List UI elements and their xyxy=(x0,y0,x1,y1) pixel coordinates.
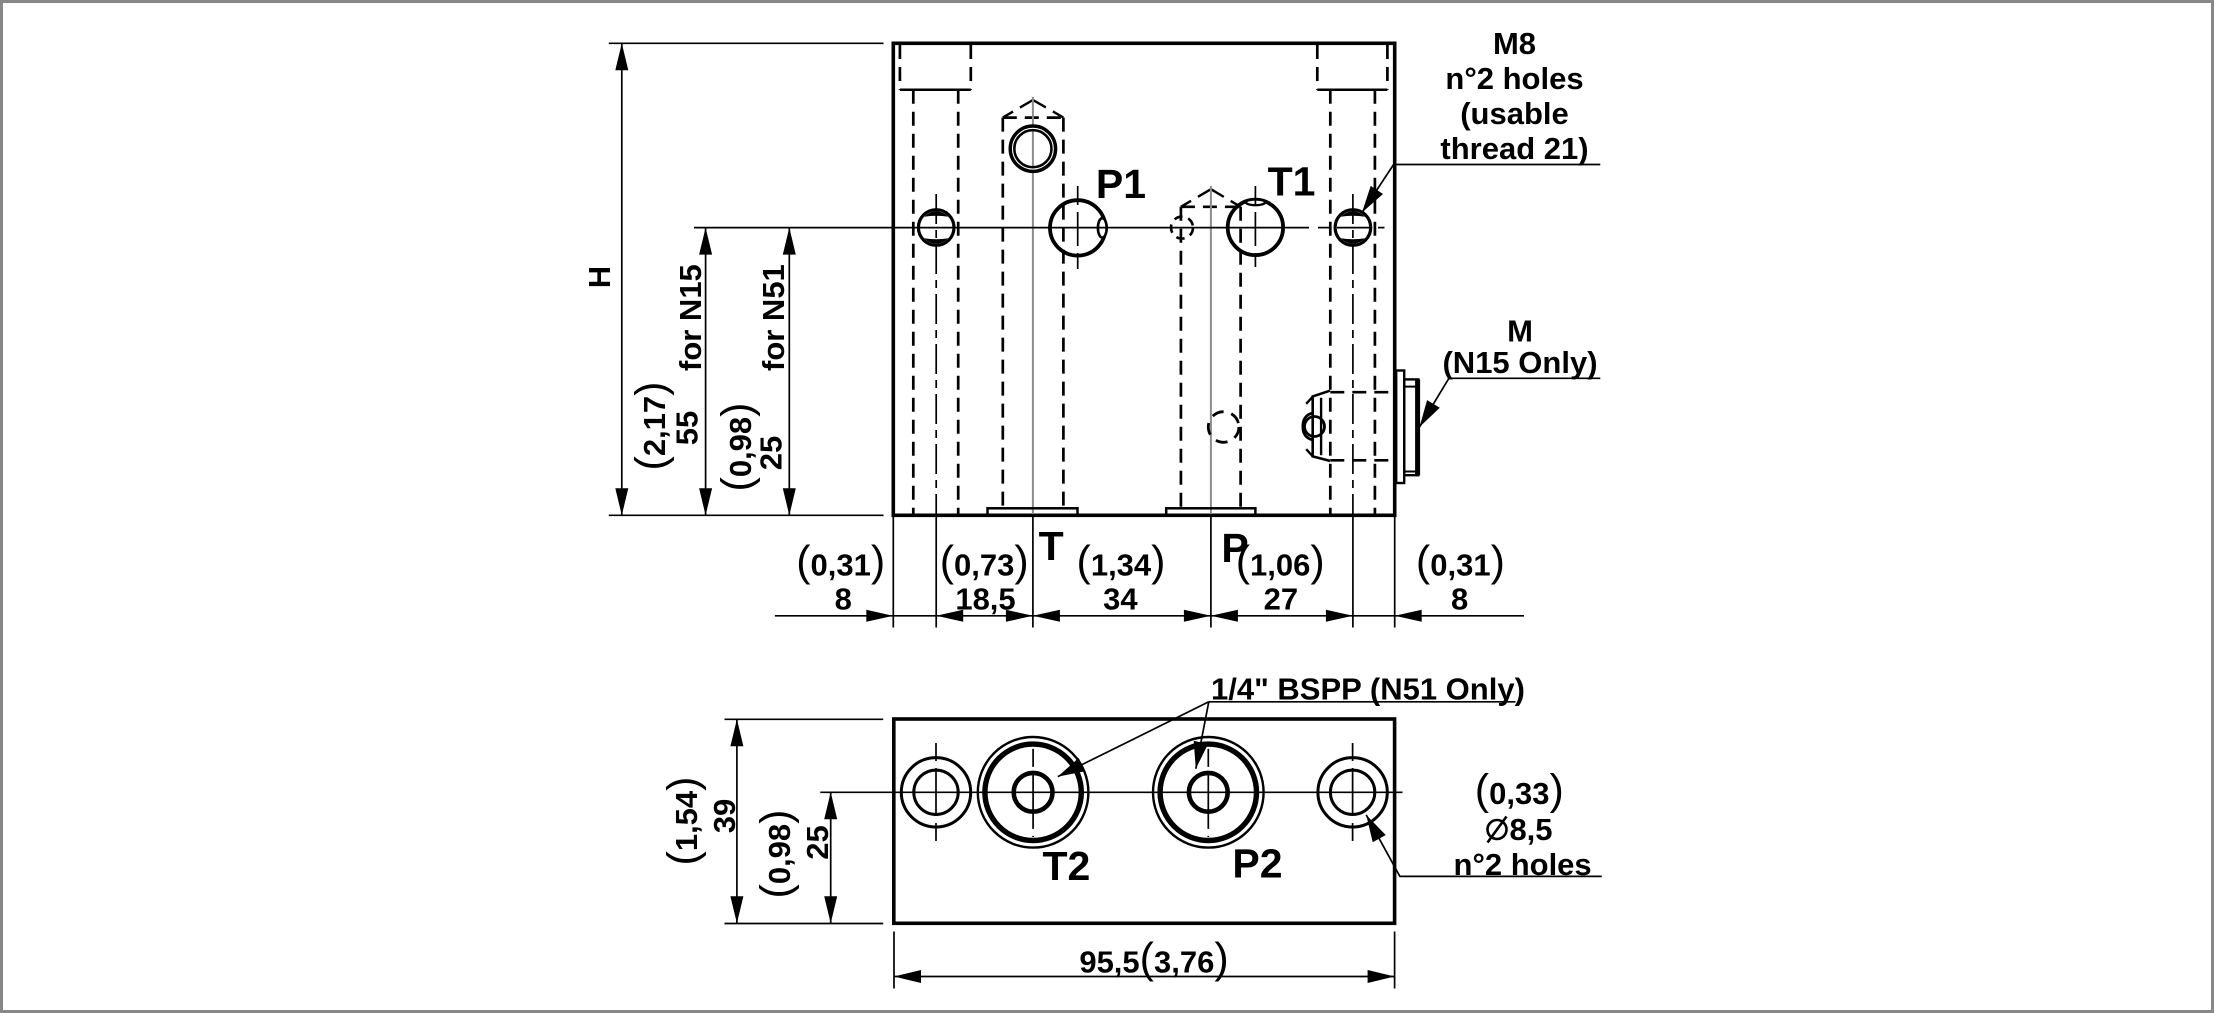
25 bottom dimension label xyxy=(752,810,835,899)
dim 27 label xyxy=(1236,538,1325,617)
front view: block body outline xyxy=(893,43,1394,515)
svg-text:M: M xyxy=(1507,314,1533,349)
right M8 front hole xyxy=(1335,210,1371,246)
P port centerline xyxy=(1210,186,1212,515)
svg-text:M8: M8 xyxy=(1493,26,1536,61)
right counterbore (hidden) xyxy=(1317,45,1387,90)
T port seat foot xyxy=(988,508,1078,515)
left counterbore (hidden) xyxy=(900,45,971,90)
dia 8,5 note text xyxy=(1454,766,1592,882)
T1 vertical centerline xyxy=(1254,186,1256,267)
svg-text:8,5: 8,5 xyxy=(1509,812,1552,847)
svg-text:(2,17): (2,17) xyxy=(627,382,675,471)
55 for N15 dimension xyxy=(699,228,712,516)
svg-text:T: T xyxy=(1039,523,1064,569)
svg-text:(N15 Only): (N15 Only) xyxy=(1442,345,1597,380)
svg-text:27: 27 xyxy=(1264,582,1298,617)
P gallery intersection (hidden blob) xyxy=(1208,412,1239,443)
T port centerline xyxy=(1032,97,1034,515)
chain dimension line xyxy=(775,615,1524,617)
T1 port circle xyxy=(1228,200,1283,255)
dim 8 right label xyxy=(1416,538,1505,617)
M plug cone tip detail xyxy=(1303,391,1330,461)
M plug flange xyxy=(1396,371,1404,484)
svg-text:55: 55 xyxy=(670,411,705,445)
svg-text:(1,54): (1,54) xyxy=(659,777,707,866)
bottom left mounting hole xyxy=(901,743,970,841)
svg-text:18,5: 18,5 xyxy=(955,582,1015,617)
25 for N51 dimension xyxy=(783,228,796,516)
svg-text:(1,34): (1,34) xyxy=(1077,538,1166,586)
svg-text:P2: P2 xyxy=(1232,841,1282,887)
dim 8 left label xyxy=(796,538,885,617)
svg-text:(0,33): (0,33) xyxy=(1475,766,1564,814)
95,5 dimension xyxy=(894,932,1395,989)
svg-text:(0,98): (0,98) xyxy=(752,810,800,899)
svg-text:(0,73): (0,73) xyxy=(940,538,1029,586)
right mounting drill hole (hidden) xyxy=(1330,90,1375,514)
right hole centerline xyxy=(1352,194,1354,515)
BSPP note leader xyxy=(1058,702,1516,777)
svg-text:(usable: (usable xyxy=(1460,96,1569,131)
P1 port circle xyxy=(1050,200,1105,255)
T port drill tower (hidden) xyxy=(1003,100,1064,509)
M8 note leader xyxy=(1362,165,1600,213)
svg-text:8: 8 xyxy=(1451,582,1468,617)
svg-text:39: 39 xyxy=(707,799,742,833)
P1 bore intersection lens xyxy=(1098,218,1107,237)
svg-text:H: H xyxy=(582,266,617,288)
chain arrowheads xyxy=(866,610,1421,622)
M plug note leader xyxy=(1420,378,1601,427)
39 dimension xyxy=(725,719,884,923)
T2 port xyxy=(978,737,1089,848)
P port seat foot xyxy=(1166,508,1255,515)
svg-text:25: 25 xyxy=(800,825,835,859)
H dimension xyxy=(609,43,884,515)
chain dim extension lines xyxy=(893,517,1394,628)
P1 vertical centerline xyxy=(1077,186,1079,269)
25 bottom dimension xyxy=(824,792,837,923)
svg-text:T1: T1 xyxy=(1268,158,1316,204)
left mounting drill hole (hidden) xyxy=(913,90,958,514)
dia 8,5 note leader xyxy=(1366,815,1602,877)
svg-text:(0,31): (0,31) xyxy=(1416,538,1505,586)
bottom right mounting hole xyxy=(1318,743,1387,841)
svg-text:thread 21): thread 21) xyxy=(1440,131,1588,166)
svg-text:95,5(3,76): 95,5(3,76) xyxy=(1079,935,1228,983)
svg-text:n°2 holes: n°2 holes xyxy=(1454,847,1592,882)
39 dimension label xyxy=(659,777,742,866)
svg-text:for N15: for N15 xyxy=(673,264,708,371)
T1 bore intersection lens xyxy=(1246,199,1265,205)
P port drill tower (hidden) xyxy=(1181,189,1241,508)
P2 port xyxy=(1153,737,1264,848)
svg-text:25: 25 xyxy=(754,436,789,470)
bottom view: block outline xyxy=(894,719,1395,923)
dim 18,5 label xyxy=(940,538,1029,617)
svg-text:34: 34 xyxy=(1103,582,1138,617)
T thread circle xyxy=(1011,126,1056,171)
M8 note text xyxy=(1440,26,1588,166)
svg-text:n°2 holes: n°2 holes xyxy=(1445,61,1583,96)
M plug tapped hole (hidden) xyxy=(1330,392,1393,460)
M plug hex body xyxy=(1404,379,1418,475)
svg-text:(1,06): (1,06) xyxy=(1236,538,1325,586)
left hole centerline xyxy=(935,194,937,515)
svg-text:(0,31): (0,31) xyxy=(796,538,885,586)
svg-text:P1: P1 xyxy=(1096,161,1146,207)
svg-text:for N51: for N51 xyxy=(756,264,791,371)
svg-text:P: P xyxy=(1221,525,1248,571)
svg-text:T2: T2 xyxy=(1042,843,1090,889)
55 dimension label xyxy=(627,264,708,470)
bottom view main centerline xyxy=(820,791,1402,793)
dim 34 label xyxy=(1077,538,1166,617)
25 dimension label xyxy=(713,264,791,491)
svg-text:8: 8 xyxy=(835,582,852,617)
svg-text:1/4" BSPP (N51 Only): 1/4" BSPP (N51 Only) xyxy=(1211,672,1525,707)
main horizontal centerline xyxy=(694,227,1385,229)
left M8 front hole xyxy=(918,210,954,246)
M plug note text xyxy=(1442,314,1597,381)
P drill intersection (hidden circle) xyxy=(1171,217,1193,239)
